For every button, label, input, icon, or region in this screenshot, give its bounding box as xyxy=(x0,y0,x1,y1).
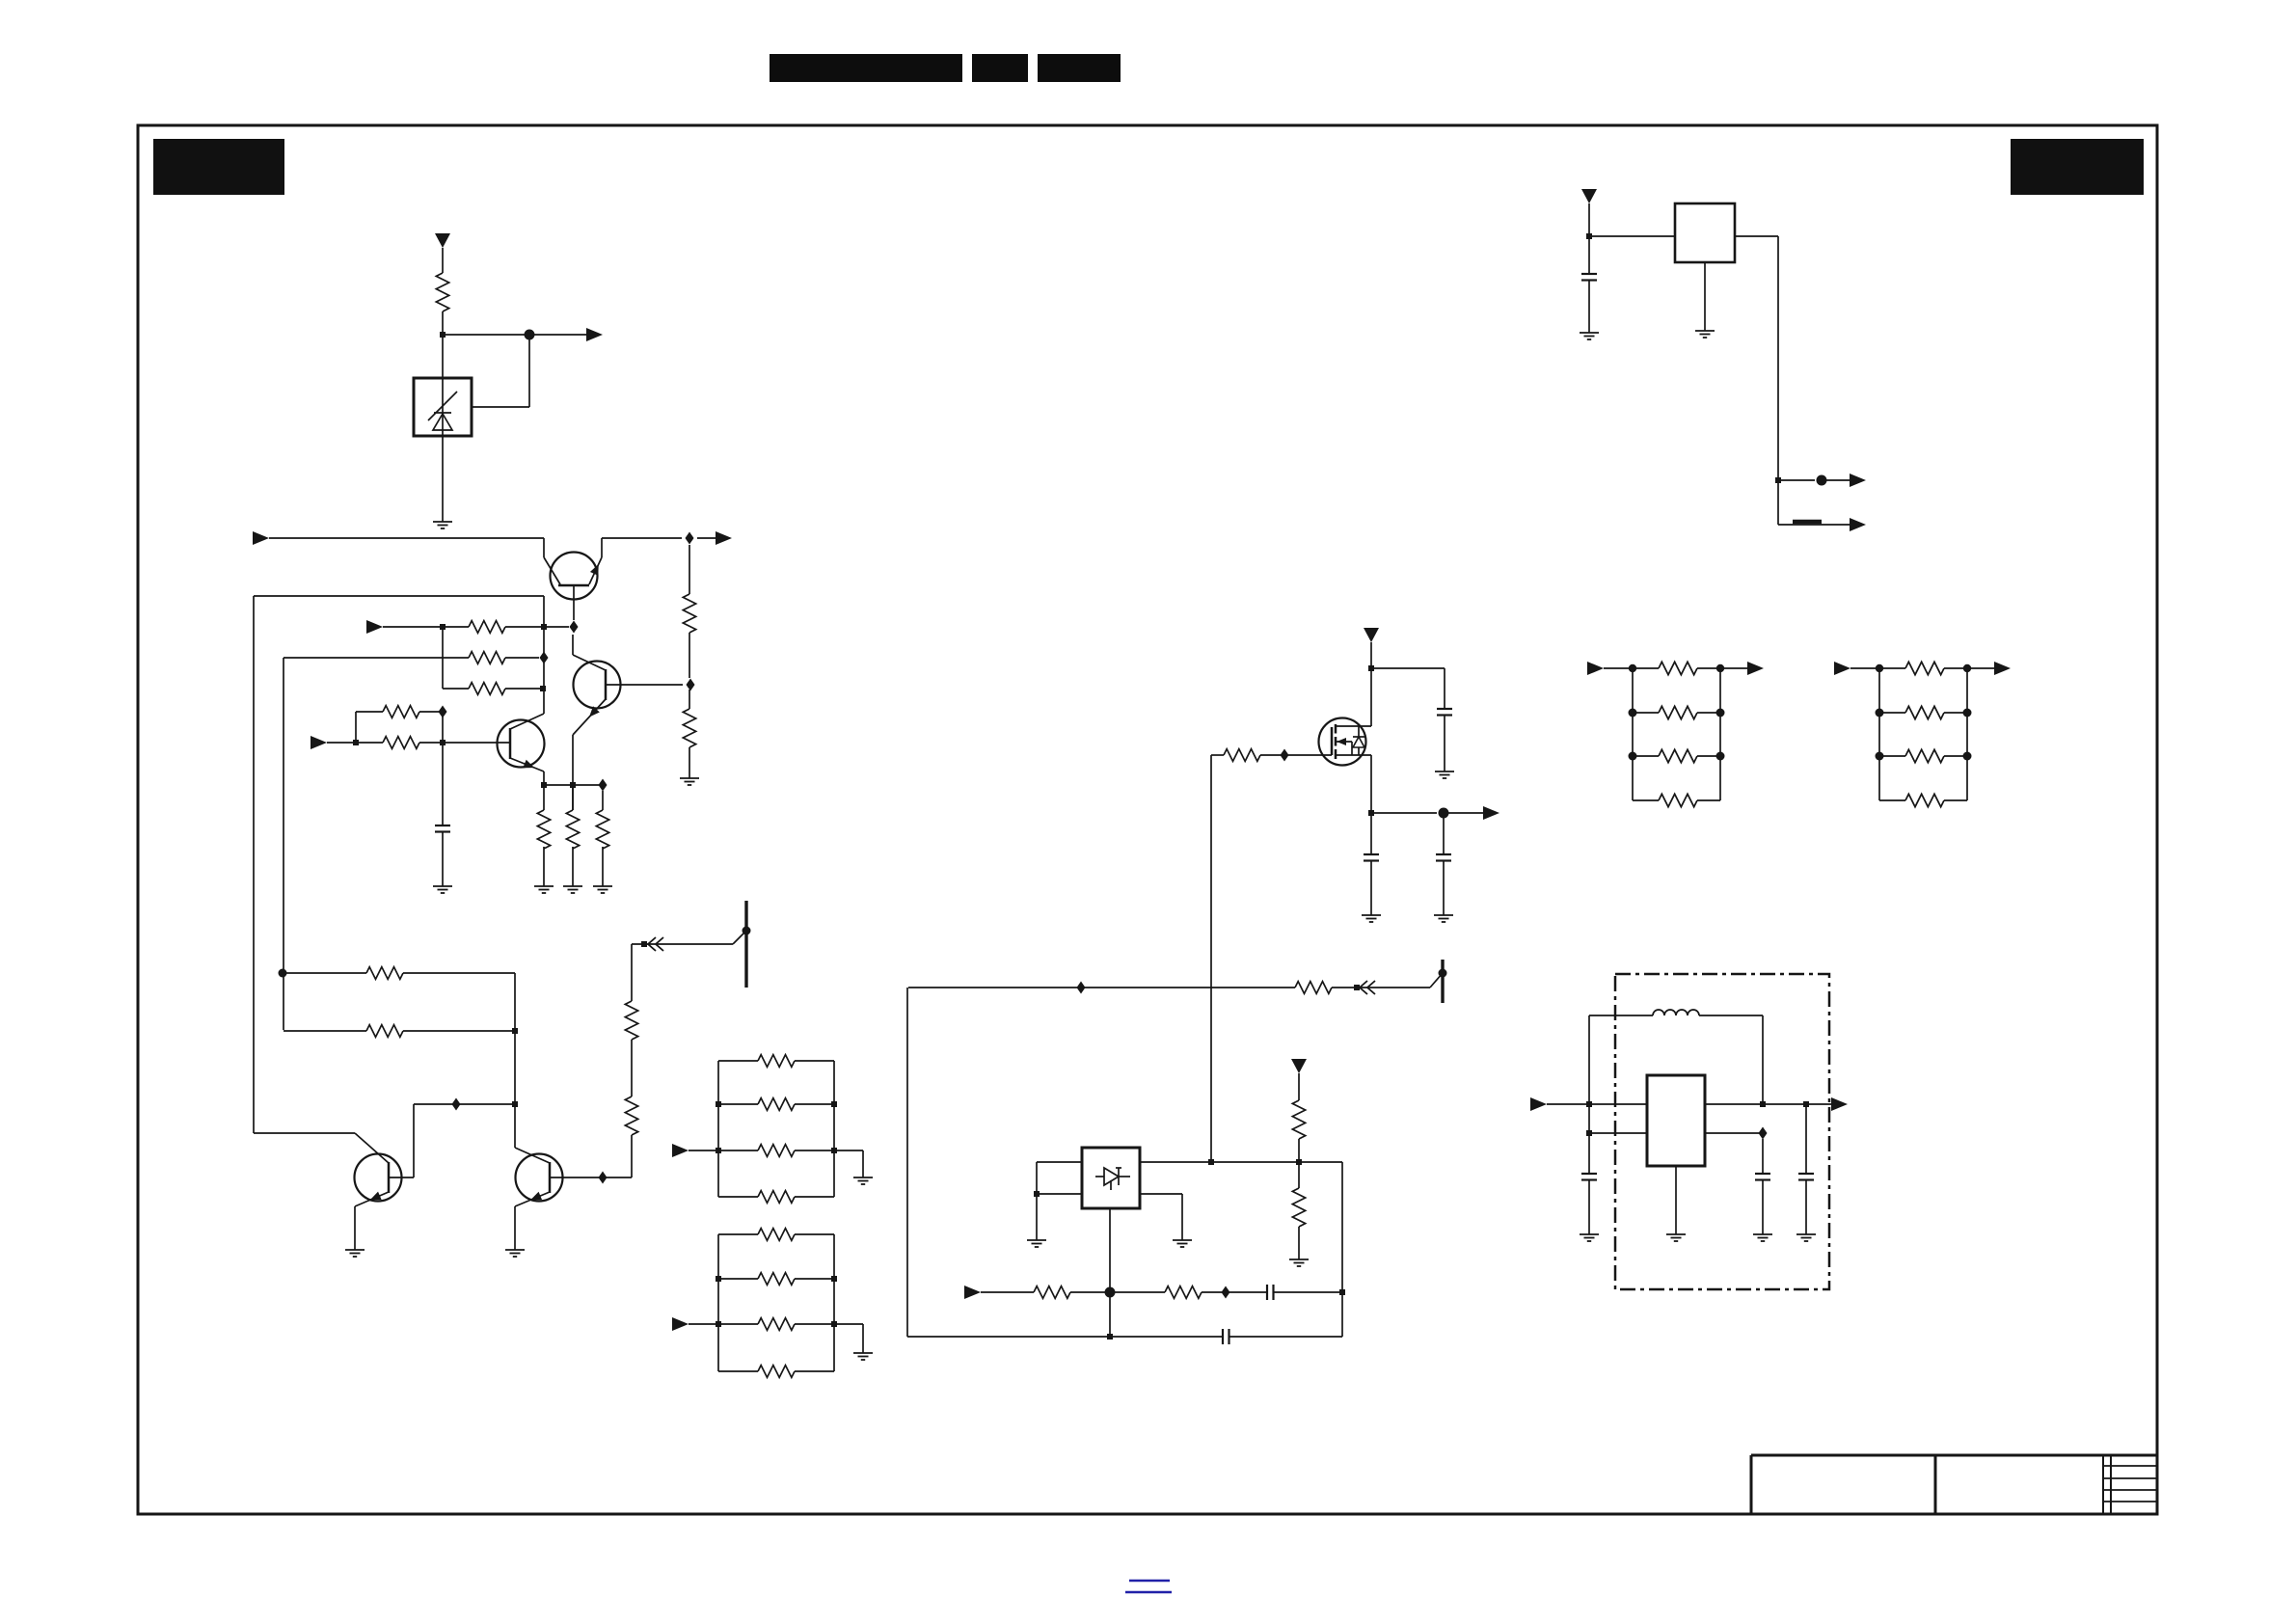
wire row3 xyxy=(443,688,469,690)
resistor R33 xyxy=(1633,799,1659,801)
node junction xyxy=(1586,1130,1592,1136)
source wire xyxy=(1370,755,1372,813)
resistor R3 xyxy=(469,652,505,664)
collector chain vertical top xyxy=(689,545,690,594)
node junction xyxy=(1586,233,1592,239)
lower left pin wire xyxy=(1037,1193,1082,1195)
wire xyxy=(689,1150,718,1151)
resistor R22 xyxy=(718,1323,758,1325)
drive lead xyxy=(1430,973,1443,988)
resistor R20 xyxy=(718,1233,758,1235)
wire xyxy=(1298,1073,1300,1100)
node junction xyxy=(440,332,446,338)
wire xyxy=(1588,1179,1590,1234)
transistor Q4 xyxy=(355,1154,402,1202)
resistor R4 xyxy=(469,683,505,695)
ground xyxy=(534,885,554,887)
bottom return wire xyxy=(907,1336,1223,1338)
capacitor C8 xyxy=(1755,1173,1770,1175)
node junction xyxy=(440,624,446,630)
corner label box top-left xyxy=(153,139,284,195)
wire xyxy=(543,538,545,557)
ground xyxy=(1173,1239,1192,1241)
wire xyxy=(631,1040,633,1096)
bank D junctions xyxy=(716,1276,721,1282)
vertical to cap xyxy=(442,717,444,826)
resistor R6 xyxy=(566,810,579,849)
row to Q4 base xyxy=(414,1103,515,1105)
output wire xyxy=(1735,235,1778,237)
Q4 emitter vertical xyxy=(354,1206,356,1250)
ground xyxy=(593,885,612,887)
resistor R5 xyxy=(537,810,550,849)
signal out arrow xyxy=(1850,474,1866,487)
wire xyxy=(529,334,595,336)
capacitor C2 xyxy=(1437,708,1452,710)
ground xyxy=(1434,914,1453,916)
bank C right rail xyxy=(833,1061,835,1197)
emitter junction row xyxy=(544,784,603,786)
node diamond xyxy=(1222,1286,1230,1299)
shunt regulator box U1 xyxy=(414,378,472,436)
bank A right rail xyxy=(1719,668,1721,800)
node junction xyxy=(279,969,287,978)
bus jog to Q4 collector xyxy=(254,1132,355,1134)
wire xyxy=(1260,754,1332,756)
resistor R9 xyxy=(383,706,419,718)
ground xyxy=(345,1249,365,1251)
wire to drive line xyxy=(632,943,733,945)
resistor R2 xyxy=(469,621,505,634)
resistor R19 xyxy=(718,1196,758,1198)
lower pin wire left xyxy=(1589,1132,1647,1134)
wire xyxy=(981,1291,1034,1293)
wire xyxy=(443,657,469,659)
wire xyxy=(1070,1291,1165,1293)
MOSFET Q6 xyxy=(1370,668,1372,726)
IC ground pin xyxy=(1704,262,1706,331)
bank B right rail xyxy=(1966,668,1968,800)
input arrow bank D xyxy=(672,1317,689,1331)
wires to ground xyxy=(543,847,545,886)
wire xyxy=(1850,667,1879,669)
node junction xyxy=(1208,1159,1214,1165)
diode D2 xyxy=(1095,1176,1104,1177)
node diamond xyxy=(452,1098,461,1111)
input cap branch xyxy=(1588,236,1590,274)
bus vertical to Q3 xyxy=(543,627,545,714)
wire xyxy=(383,626,469,628)
node diamond xyxy=(1759,1127,1768,1140)
signal out arrow xyxy=(1850,518,1866,531)
schematic frame border xyxy=(138,125,2157,1514)
corner label box top-right xyxy=(2011,139,2144,195)
transistor Q3 xyxy=(498,720,545,768)
resistor R10 xyxy=(683,594,695,633)
capacitor C4 xyxy=(1436,853,1451,855)
power supply arrow V4 xyxy=(1581,189,1597,203)
resistor R11 xyxy=(683,709,695,747)
power supply arrow V2 xyxy=(1364,628,1379,642)
node junction xyxy=(1368,665,1374,671)
ground xyxy=(1289,1259,1309,1260)
wire xyxy=(1443,860,1445,915)
node junction xyxy=(1107,1334,1113,1340)
wire xyxy=(1298,1139,1300,1162)
resistor R16 xyxy=(718,1060,758,1062)
node junction xyxy=(1034,1191,1040,1197)
node diamond xyxy=(1281,749,1289,762)
wire xyxy=(1274,1291,1342,1293)
feedback wire xyxy=(908,987,1295,988)
input arrow row5 xyxy=(311,736,327,749)
input arrow module xyxy=(1530,1097,1547,1111)
left bus vertical 2 xyxy=(283,658,284,1030)
node junction xyxy=(540,686,546,691)
resistor R17 xyxy=(718,1103,758,1105)
node diamond xyxy=(686,532,694,545)
ground xyxy=(1580,332,1599,334)
wire xyxy=(1967,667,2003,669)
bottom pin wire xyxy=(1109,1208,1111,1337)
ground xyxy=(1695,330,1715,332)
inductor L1 xyxy=(1588,1015,1590,1104)
node junction xyxy=(1296,1159,1302,1165)
node A xyxy=(525,330,535,340)
signal out arrow xyxy=(1747,662,1764,675)
Q1 base wire xyxy=(573,585,575,620)
resistor R14 xyxy=(625,1096,637,1135)
resistor R37 xyxy=(1879,799,1905,801)
signal out arrow xyxy=(1831,1097,1848,1111)
IC ground pin xyxy=(1675,1166,1677,1234)
resistor R30 xyxy=(1633,667,1659,669)
ground xyxy=(1796,1233,1816,1235)
resistor R35 xyxy=(1879,712,1905,714)
left pin wire xyxy=(1037,1161,1082,1163)
input arrow feedback xyxy=(964,1286,981,1299)
bank A left rail xyxy=(1632,668,1634,800)
capacitor C9 xyxy=(1798,1173,1814,1175)
input arrow bank A xyxy=(1587,662,1604,675)
right pin wire xyxy=(1140,1193,1182,1195)
wire xyxy=(1444,715,1445,771)
row6 wire xyxy=(283,972,366,974)
resistor R13 xyxy=(366,1025,403,1038)
signal out arrow xyxy=(716,531,732,545)
Q2 emitter vertical xyxy=(572,735,574,810)
right cap branch xyxy=(1805,1104,1807,1174)
ground xyxy=(433,885,452,887)
node C xyxy=(1817,475,1827,486)
node junction xyxy=(641,941,647,947)
supply row wire xyxy=(1140,1161,1342,1163)
input arrow bank B xyxy=(1834,662,1850,675)
signal out arrow xyxy=(1994,662,2011,675)
wire xyxy=(1588,203,1590,236)
row7 wire xyxy=(284,1030,366,1032)
wire xyxy=(1444,812,1492,814)
ground xyxy=(680,777,699,779)
ground xyxy=(1362,914,1381,916)
wire xyxy=(403,1030,515,1032)
bus wire net C xyxy=(254,595,544,597)
wire xyxy=(1229,1336,1342,1338)
wire xyxy=(1778,479,1815,481)
wire xyxy=(505,626,569,628)
node B xyxy=(1439,808,1449,819)
wire to ground xyxy=(834,1323,863,1325)
resistor R31 xyxy=(1633,712,1659,714)
resistor R23 xyxy=(718,1370,758,1372)
Q3 emitter vertical xyxy=(543,771,545,810)
resistor R15 xyxy=(625,1001,637,1040)
node junction xyxy=(512,1028,518,1034)
wire xyxy=(327,742,383,744)
zener diode D1 xyxy=(442,378,444,436)
node diamond xyxy=(599,1172,608,1184)
bank D left rail xyxy=(717,1234,719,1371)
wire xyxy=(443,334,529,336)
wire xyxy=(505,688,543,690)
ground xyxy=(853,1177,873,1178)
wire xyxy=(442,436,444,522)
hyperlink underline 2 xyxy=(1125,1591,1172,1594)
resistor R26 xyxy=(1292,1100,1305,1139)
input arrow net B xyxy=(253,531,269,545)
node junction xyxy=(512,1101,518,1107)
transistor Q5 xyxy=(516,1154,563,1202)
wire xyxy=(442,248,444,273)
module boundary dash-dot box xyxy=(1615,974,1829,1289)
page title redaction bar 3 xyxy=(1038,54,1121,82)
wire xyxy=(689,1323,718,1325)
node xyxy=(743,927,751,935)
drive transistor bar xyxy=(744,901,747,988)
signal out arrow xyxy=(586,328,603,341)
node xyxy=(1439,969,1447,978)
title block revision rows xyxy=(2103,1465,2157,1467)
bank B junctions xyxy=(1876,664,1883,672)
wire xyxy=(1588,280,1590,333)
node junction xyxy=(353,740,359,745)
diamond cap branch xyxy=(1762,1139,1764,1174)
transistor Q1 xyxy=(551,553,598,600)
left bus vertical 1 xyxy=(253,596,255,1133)
resistor R27 xyxy=(1292,1188,1305,1227)
wire xyxy=(442,831,444,886)
capacitor C10 xyxy=(1581,273,1597,275)
wire xyxy=(1762,1179,1764,1234)
ground xyxy=(1027,1239,1046,1241)
wire to snubber cap xyxy=(1371,667,1445,669)
title block revision column xyxy=(2102,1455,2104,1514)
ground xyxy=(1580,1233,1599,1235)
feedback jog xyxy=(355,712,357,743)
resistor R12 xyxy=(366,967,403,980)
drive bar xyxy=(1441,960,1444,1003)
feedback left rail xyxy=(906,988,908,1337)
node junction xyxy=(1339,1289,1345,1295)
bank A junctions xyxy=(1629,664,1636,672)
wire xyxy=(1332,987,1430,988)
direction chevrons xyxy=(648,937,656,951)
Q4 base wire xyxy=(389,1177,414,1178)
transistor Q2 xyxy=(574,662,621,709)
page title redaction bar 1 xyxy=(770,54,962,82)
wire xyxy=(419,742,510,744)
label redaction xyxy=(1793,520,1822,525)
node diamond xyxy=(570,621,579,634)
left cap branch xyxy=(1588,1104,1590,1174)
node diamond xyxy=(687,679,695,691)
page title redaction bar 2 xyxy=(972,54,1028,82)
resistor R34 xyxy=(1879,667,1905,669)
ground xyxy=(505,1249,525,1251)
regulator IC U3 xyxy=(1647,1075,1705,1166)
node diamond xyxy=(1077,982,1086,994)
wire xyxy=(602,537,682,539)
drive transistor lead xyxy=(733,931,746,944)
bus wire vertical xyxy=(543,596,545,627)
node junction xyxy=(1760,1101,1766,1107)
node diamond xyxy=(439,706,447,718)
ground xyxy=(1753,1233,1772,1235)
base series resistors vertical xyxy=(631,1135,633,1177)
reference diode box U2 xyxy=(1082,1148,1140,1208)
wire below diamond xyxy=(689,690,690,709)
node junction xyxy=(1803,1101,1809,1107)
gate resistor R24 xyxy=(1211,754,1224,756)
resistor R21 xyxy=(718,1278,758,1280)
wire xyxy=(1202,1291,1267,1293)
resistor R8 xyxy=(383,737,419,749)
wire xyxy=(1443,813,1445,854)
capacitor C6 xyxy=(1222,1329,1224,1344)
wire xyxy=(689,633,690,678)
wire xyxy=(1370,642,1372,668)
wire xyxy=(442,311,444,378)
ground xyxy=(1666,1233,1686,1235)
wire xyxy=(419,711,443,713)
ground xyxy=(433,521,452,523)
Q5 emitter vertical xyxy=(514,1206,516,1250)
wire xyxy=(697,537,724,539)
wire xyxy=(572,785,574,810)
wire xyxy=(269,537,544,539)
node junction xyxy=(1586,1101,1592,1107)
wire xyxy=(1370,813,1372,854)
ground xyxy=(563,885,582,887)
wire xyxy=(1805,1179,1807,1234)
wire xyxy=(1720,667,1756,669)
capacitor C5 xyxy=(1266,1285,1268,1300)
resistor R1 xyxy=(436,273,448,311)
node xyxy=(1105,1287,1116,1298)
vertical join rows xyxy=(442,627,444,689)
bank D right rail xyxy=(833,1234,835,1371)
node diamond xyxy=(599,779,608,792)
vertical bus to Q5 xyxy=(514,973,516,1148)
right rail xyxy=(1341,1162,1343,1337)
wire to ground xyxy=(834,1150,863,1151)
regulator IC U4 xyxy=(1675,203,1735,262)
power supply arrow V3 xyxy=(1291,1059,1307,1073)
ground xyxy=(853,1352,873,1354)
node junction xyxy=(1775,477,1781,483)
hyperlink underline 1 xyxy=(1129,1580,1170,1583)
resistor R18 xyxy=(718,1150,758,1151)
bank C left rail xyxy=(717,1061,719,1197)
capacitor C3 xyxy=(1364,853,1379,855)
gate feed vertical xyxy=(1210,755,1212,1162)
node junction xyxy=(1368,810,1374,816)
bus wire net D xyxy=(284,657,443,659)
title block divider xyxy=(1934,1455,1937,1514)
input arrow bank C xyxy=(672,1144,689,1157)
title block outline xyxy=(1751,1454,2157,1457)
wire xyxy=(1547,1103,1646,1105)
node junction xyxy=(1354,985,1360,990)
Q2 base wire xyxy=(606,684,683,686)
power supply arrow V1 xyxy=(435,233,450,248)
capacitor C1 xyxy=(435,825,450,826)
resistor R36 xyxy=(1879,755,1905,757)
input arrow row1 xyxy=(366,620,383,634)
signal out arrow xyxy=(1483,806,1499,820)
direction chevrons xyxy=(1360,981,1367,994)
wire xyxy=(1371,812,1437,814)
node junction xyxy=(541,624,547,630)
wire xyxy=(528,335,530,407)
lower pin wire right xyxy=(1705,1132,1763,1134)
wire xyxy=(1589,235,1675,237)
resistor R7 xyxy=(596,810,608,849)
resistor R28 xyxy=(1034,1286,1070,1299)
wire xyxy=(403,972,515,974)
node junction xyxy=(440,740,446,745)
bank C junctions xyxy=(716,1101,721,1107)
node diamond xyxy=(540,652,549,664)
capacitor C7 xyxy=(1581,1173,1597,1175)
bank B left rail xyxy=(1878,668,1880,800)
output wire xyxy=(1705,1103,1840,1105)
resistor R29 xyxy=(1165,1286,1202,1299)
resistor R25 xyxy=(1295,982,1332,994)
wire xyxy=(689,747,690,778)
wire xyxy=(1604,667,1633,669)
wire xyxy=(631,944,633,1001)
Q5 base wire xyxy=(550,1177,632,1178)
wire xyxy=(1298,1227,1300,1259)
ground xyxy=(1435,771,1454,772)
wire xyxy=(1778,524,1857,526)
resistor R32 xyxy=(1633,755,1659,757)
wire xyxy=(1822,479,1857,481)
wire xyxy=(1298,1162,1300,1188)
wire xyxy=(1370,860,1372,915)
